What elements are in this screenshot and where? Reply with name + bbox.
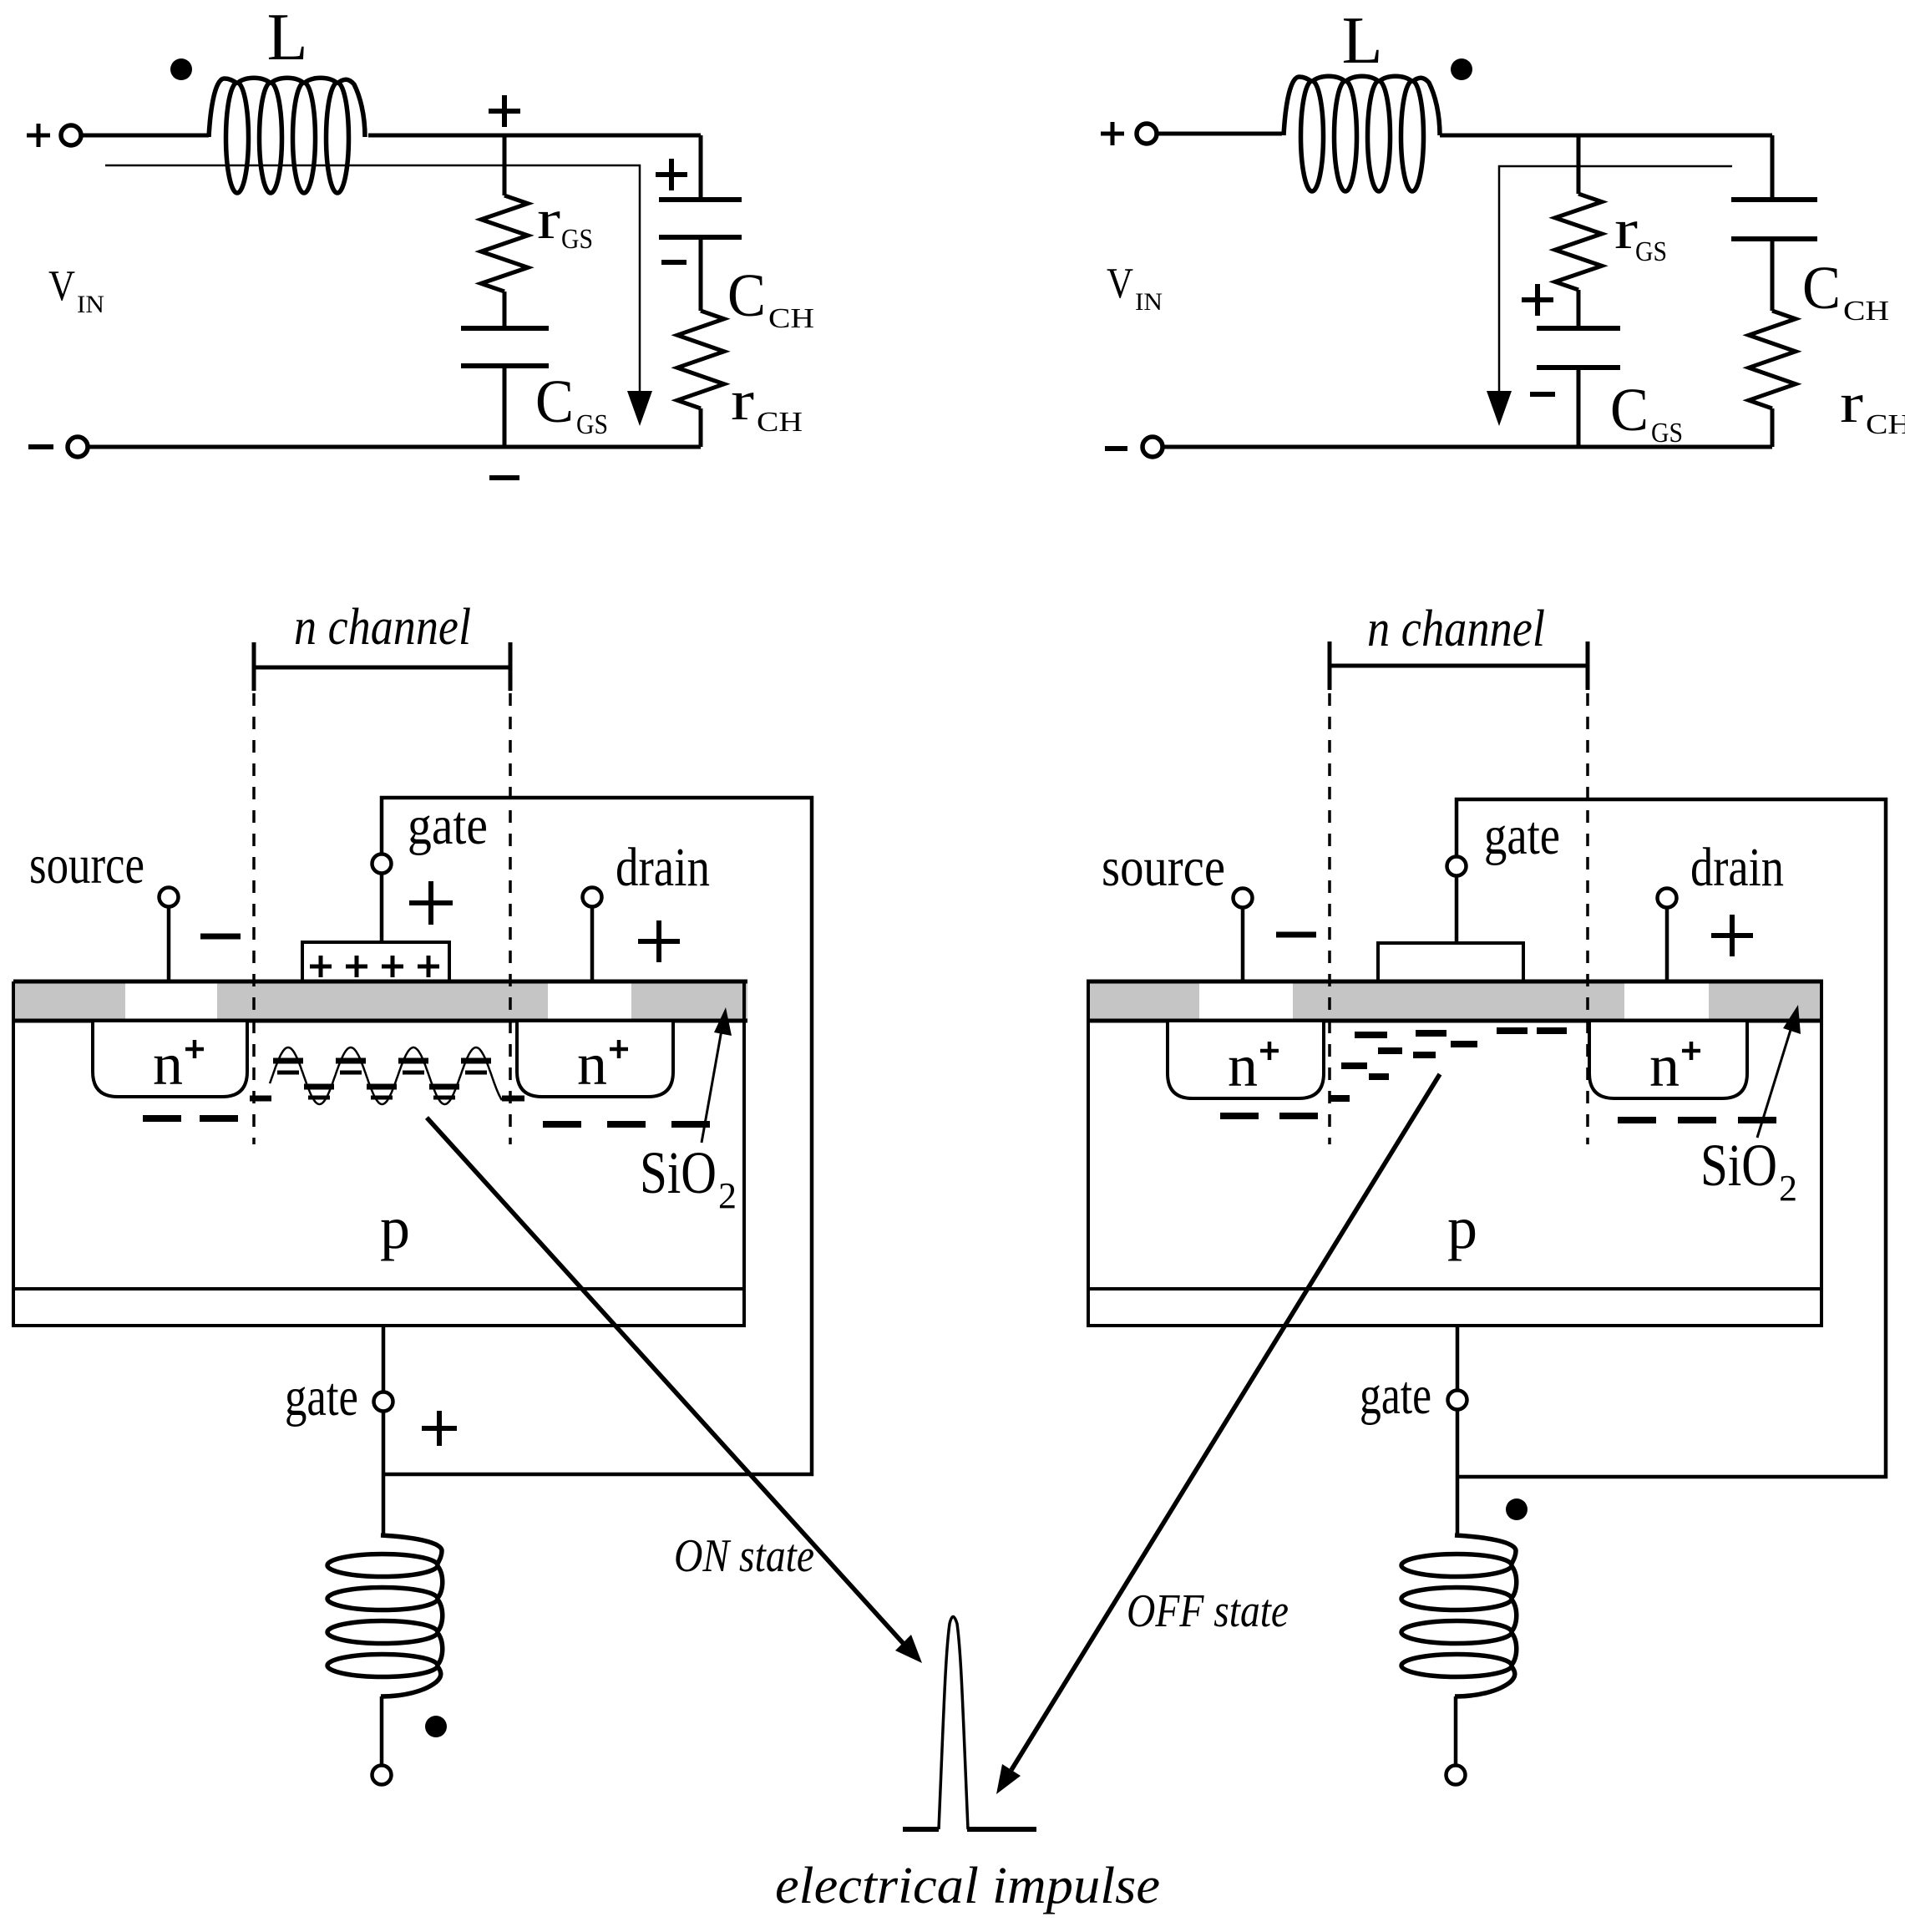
dashed channel boundary left (left device) (252, 693, 256, 1144)
label + above CCH (top-left) (656, 159, 687, 190)
gate loop wire (right device) (1457, 799, 1886, 1477)
svg-text:GS: GS (1651, 418, 1683, 449)
resistor rGS (top-left) (481, 195, 528, 292)
wire gate circle to gate electrode (right device) (1455, 875, 1459, 943)
wire CGS to bottom rail (top-right) (1577, 368, 1581, 447)
node + terminal positive (top-left circuit) (27, 124, 50, 147)
source terminal circle (right device) (1234, 889, 1253, 908)
wire right branch to capacitor CCH (top-right) (1771, 135, 1775, 200)
svg-text:r: r (537, 187, 560, 251)
wire from inductor to node (top-left) (368, 134, 701, 138)
label - at source (right device) (1276, 932, 1316, 938)
inductor L (top-left) (209, 78, 365, 137)
minus mark channel right end (left device) (502, 1096, 524, 1102)
svg-text:C: C (1610, 376, 1649, 444)
label + above CGS (top-right) (1522, 284, 1553, 316)
terminal circle + (top-right) (1137, 124, 1157, 144)
wire CGS to bottom rail (top-left) (503, 366, 507, 447)
depletion dashes below source n+ (right device) (1220, 1113, 1318, 1119)
svg-text:drain: drain (616, 837, 710, 898)
dashed channel boundary left (right device) (1328, 693, 1331, 1144)
wire CCH to resistor rCH (top-right) (1771, 239, 1775, 311)
svg-text:CH: CH (1866, 409, 1905, 440)
svg-text:OFF state: OFF state (1127, 1585, 1289, 1637)
substrate bottom layer line (right device) (1088, 1287, 1821, 1291)
gate loop wire (left device) (382, 798, 812, 1474)
label - at source (left device) (200, 934, 241, 940)
depletion charge dashes under gate (right device) (1330, 1031, 1567, 1098)
svg-text:SiO: SiO (640, 1139, 717, 1206)
source wire (left device) (167, 907, 171, 981)
gate electrode box (right device) (1378, 943, 1523, 981)
n+ source region (left device) (93, 1022, 247, 1097)
svg-text:C: C (727, 261, 766, 329)
svg-text:source: source (1102, 837, 1225, 898)
drain terminal circle (left device) (583, 888, 602, 907)
bottom terminal circle (right device) (1446, 1766, 1466, 1785)
thin gate sense line (top-right) (1499, 166, 1732, 401)
bottom rail wire (top-right) (1164, 445, 1772, 449)
svg-text:CH: CH (757, 407, 803, 438)
wire coil to bottom terminal (left device) (380, 1696, 384, 1766)
resistor rGS (top-right) (1555, 194, 1602, 290)
arrowhead of gate sense arrow (top-left) (627, 391, 652, 426)
electron charge marks in channel (left device) (273, 1061, 491, 1087)
label - terminal negative (top-left) (28, 444, 53, 449)
wire rCH to bottom rail (top-right) (1771, 408, 1775, 447)
label + at bottom gate (left device) (422, 1411, 457, 1446)
label - terminal negative (top-right) (1105, 446, 1127, 451)
resistor rCH (top-right) (1749, 311, 1796, 408)
svg-text:ON state: ON state (674, 1530, 814, 1582)
impulse spike waveform (939, 1617, 968, 1830)
label - below CGS plates (top-right) (1530, 392, 1555, 397)
gate drive inductor (left device) (381, 1535, 443, 1696)
dashed channel boundary right (right device) (1586, 693, 1589, 1144)
substrate gate wire (left device) (382, 1326, 386, 1392)
svg-text:n channel: n channel (1367, 601, 1545, 657)
n channel measurement bracket (right device) (1330, 641, 1588, 690)
gate terminal circle top (right device) (1447, 857, 1467, 876)
wire bottom gate to coil (right device) (1456, 1409, 1460, 1537)
oxide layer SiO2 band (right device) (1087, 981, 1823, 1021)
substrate bottom layer line (left device) (13, 1287, 744, 1291)
svg-text:drain: drain (1690, 837, 1784, 898)
wire CCH to resistor rCH (top-left) (699, 237, 703, 311)
svg-text:2: 2 (718, 1175, 737, 1216)
svg-text:gate: gate (285, 1367, 358, 1427)
label + at gate (left device) (409, 881, 453, 925)
label + at drain (right device) (1711, 915, 1753, 956)
drain wire (right device) (1665, 908, 1669, 983)
depletion dashes below source n+ (left device) (143, 1115, 238, 1122)
terminal circle - (top-right) (1142, 437, 1163, 457)
dashed channel boundary right (left device) (509, 693, 512, 1144)
capacitor CGS (top-left) (461, 328, 549, 366)
silicon p body box (left device) (13, 981, 744, 1326)
wire coil to bottom terminal (right device) (1454, 1696, 1458, 1766)
drain wire (left device) (590, 907, 595, 981)
node + terminal positive (top-right circuit) (1101, 122, 1124, 145)
capacitor CGS (top-right) (1537, 328, 1620, 368)
ON state arrow (427, 1118, 904, 1644)
resistor rCH (top-left) (677, 311, 724, 408)
polarity dot of gate inductor (right device) (1506, 1498, 1528, 1520)
wire from + terminal to inductor L (top-right) (1157, 132, 1282, 136)
svg-text:gate: gate (1484, 805, 1560, 866)
wire rGS to capacitor CGS (top-right) (1577, 290, 1581, 328)
svg-text:electrical impulse: electrical impulse (775, 1858, 1160, 1914)
svg-text:C: C (1802, 254, 1841, 322)
svg-text:n: n (577, 1031, 607, 1098)
svg-text:n channel: n channel (294, 599, 471, 656)
svg-text:source: source (29, 834, 144, 895)
n channel measurement bracket (left device) (254, 642, 510, 691)
svg-text:V: V (48, 262, 75, 310)
impulse baseline right (967, 1827, 1036, 1832)
svg-text:IN: IN (1135, 288, 1163, 316)
depletion dashes below drain n+ (left device) (543, 1121, 710, 1128)
oxide layer SiO2 band (left device) (13, 981, 747, 1021)
wire rCH to bottom rail (top-left) (699, 408, 703, 447)
svg-text:CH: CH (1843, 296, 1889, 327)
wire rGS to capacitor CGS (top-left) (503, 292, 507, 328)
minus mark channel left end (left device) (250, 1096, 271, 1102)
thin gate sense line (top-left) (105, 165, 640, 401)
terminal circle - (top-left) (68, 437, 88, 457)
wire node to resistor rGS (top-left) (503, 135, 507, 195)
arrow to SiO2 layer (right device) (1757, 1019, 1794, 1138)
plus charges in gate electrode (left device) (310, 956, 439, 977)
label - below CGS node (top-left) (489, 475, 519, 480)
svg-text:CH: CH (768, 303, 814, 334)
polarity dot of inductor L (top-right) (1451, 58, 1472, 80)
svg-text:n: n (153, 1031, 183, 1098)
label + at drain (left device) (638, 920, 680, 962)
impulse baseline left (903, 1827, 939, 1832)
svg-text:gate: gate (1360, 1365, 1431, 1426)
drain terminal circle (right device) (1658, 889, 1677, 908)
capacitor CCH (top-left) (659, 200, 742, 237)
svg-text:n: n (1228, 1032, 1258, 1099)
source terminal circle (left device) (160, 888, 179, 907)
svg-text:r: r (1840, 371, 1863, 434)
arrowhead of gate sense arrow (top-right) (1487, 391, 1512, 426)
n+ drain region (left device) (517, 1022, 673, 1097)
gate terminal circle top (left device) (372, 854, 392, 874)
label + at gate node (top-left) (489, 95, 520, 127)
depletion dashes below drain n+ (right device) (1618, 1117, 1776, 1123)
svg-text:L: L (1342, 4, 1383, 78)
gate terminal circle bottom (left device) (374, 1392, 393, 1412)
arrow to SiO2 layer (left device) (702, 1021, 723, 1143)
svg-text:GS: GS (1635, 236, 1667, 267)
wire node to capacitor CCH (top-left) (699, 135, 703, 200)
terminal circle + (top-left) (61, 125, 81, 145)
svg-text:C: C (535, 368, 574, 435)
polarity dot of gate inductor (left device) (425, 1716, 447, 1737)
silicon p body box (right device) (1088, 981, 1821, 1326)
source wire (right device) (1241, 908, 1245, 983)
svg-text:n: n (1649, 1032, 1680, 1099)
gate electrode box (left device) (302, 942, 449, 981)
wire node to resistor rGS (top-right) (1577, 135, 1581, 194)
bottom rail wire (top-left) (89, 445, 701, 449)
svg-text:p: p (1447, 1194, 1477, 1261)
svg-text:GS: GS (561, 224, 593, 255)
svg-text:V: V (1107, 260, 1133, 307)
svg-text:r: r (731, 368, 754, 432)
n+ drain region (right device) (1589, 1022, 1747, 1098)
gate drive inductor (right device) (1455, 1535, 1517, 1696)
wire from + terminal to inductor L (top-left) (81, 134, 209, 138)
gate terminal circle bottom (right device) (1448, 1391, 1467, 1410)
wire from inductor to right branch (top-right) (1440, 134, 1772, 138)
inductor L (top-right) (1284, 76, 1440, 135)
OFF state arrow (1011, 1074, 1440, 1770)
polarity dot of inductor L (top-left) (170, 58, 192, 80)
inversion channel wavy line (left device) (270, 1047, 502, 1104)
svg-text:IN: IN (77, 291, 104, 318)
capacitor CCH (top-right) (1731, 200, 1817, 239)
substrate gate wire (right device) (1456, 1326, 1460, 1391)
wire gate circle to gate electrode (left device) (380, 873, 384, 942)
bottom terminal circle (left device) (372, 1766, 392, 1785)
svg-text:SiO: SiO (1700, 1132, 1777, 1199)
svg-text:2: 2 (1779, 1168, 1797, 1209)
svg-text:GS: GS (576, 409, 608, 440)
svg-text:gate: gate (408, 795, 488, 856)
wire bottom gate to coil (left device) (382, 1411, 386, 1537)
n+ source region (right device) (1168, 1022, 1324, 1098)
svg-text:p: p (380, 1194, 410, 1261)
svg-text:L: L (267, 1, 308, 74)
label - below CCH (top-left) (661, 260, 687, 265)
